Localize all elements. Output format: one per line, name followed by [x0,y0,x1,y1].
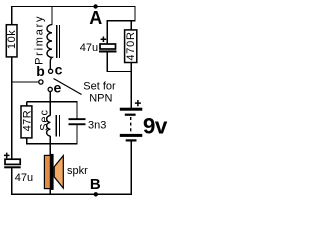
wire capacitor C3 top stub [76,101,78,118]
capacitor C2 47u electrolytic bottom [4,153,21,169]
resistor 470R [125,30,137,63]
node B dot [94,192,98,196]
label c [55,61,63,77]
label 47u top [80,42,98,54]
wire secondary loop bottom [27,143,78,145]
svg-text:10k: 10k [6,30,18,49]
wire left rail middle [11,57,13,160]
wire left rail lower [11,168,13,195]
label NPN [89,93,112,105]
label B [90,176,101,193]
wire capacitor C1 bottom stub [106,52,108,72]
svg-text:Sec: Sec [38,109,50,131]
transformer T1 primary winding [47,25,52,70]
callout leader line [54,79,82,95]
wire base lead b [11,81,39,83]
transformer core upper [57,25,60,58]
speaker cone [54,156,63,189]
svg-text:9v: 9v [143,114,168,139]
wire secondary loop top [27,101,78,103]
label 47u bottom [15,172,33,184]
label Set for [83,81,116,93]
label 3n3 [88,120,106,132]
wire capacitor C3 bottom stub [76,125,78,145]
terminal b [39,80,43,84]
label Sec [38,109,50,131]
resistor 10k [6,25,18,57]
svg-text:47R: 47R [21,110,33,132]
svg-text:NPN: NPN [89,93,112,105]
wire resistor R3 top stub [26,102,28,107]
node A dot [93,4,97,8]
terminal e [48,87,52,91]
wire capacitor C1 top stub [106,20,108,44]
label A [89,8,102,28]
wire resistor R2 top stub [130,21,132,31]
svg-text:47u: 47u [15,172,33,184]
label Primary [34,15,46,65]
svg-text:470R: 470R [125,31,137,60]
wire battery positive lead [130,71,132,108]
label e [54,80,62,96]
capacitor C1 47u electrolytic top [99,37,117,53]
svg-text:A: A [89,8,102,28]
wire resistor R2 bottom stub [130,62,132,72]
wire battery negative lead [130,141,132,195]
terminal c [49,69,53,73]
transformer core lower [56,115,59,137]
svg-text:spkr: spkr [67,165,88,177]
svg-text:B: B [90,176,101,193]
speaker magnet [44,155,50,188]
speaker voice coil bar [50,154,53,190]
resistor 47R [21,106,33,138]
svg-text:3n3: 3n3 [88,120,106,132]
svg-text:Primary: Primary [34,15,46,65]
wire bottom rail [11,193,132,195]
svg-text:47u: 47u [80,42,98,54]
svg-text:c: c [55,61,63,77]
wire primary top lead [51,6,53,25]
wire left rail upper [11,6,13,25]
transformer T1 secondary winding [47,116,51,136]
label spkr [67,165,88,177]
label b [36,63,45,79]
label 9v [143,114,168,139]
wire RC sub-loop top [107,20,136,22]
wire right corner vertical [134,6,136,21]
wire resistor R3 bottom stub [26,138,28,145]
battery B1 9v [120,100,143,142]
svg-text:Set for: Set for [83,81,116,93]
svg-text:b: b [36,63,45,79]
wire secondary bottom to speaker to bottom rail [49,136,51,195]
wire RC sub-loop bottom [107,70,132,72]
wire top rail [11,5,136,7]
capacitor C3 3n3 [69,118,86,125]
wire emitter lead e to secondary [49,92,51,116]
